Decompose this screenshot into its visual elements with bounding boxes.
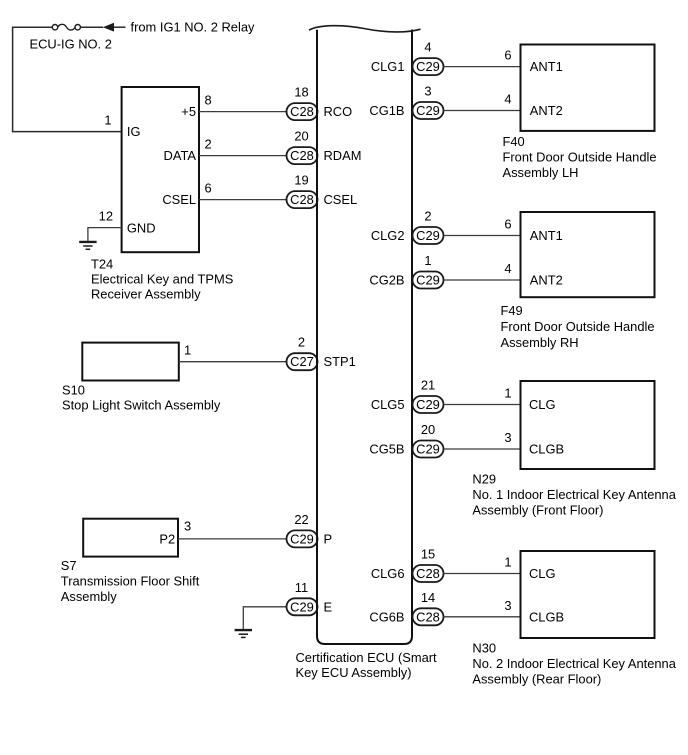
svg-text:ANT1: ANT1 [530, 228, 563, 243]
svg-text:C29: C29 [416, 442, 440, 457]
svg-text:8: 8 [205, 93, 212, 108]
svg-text:20: 20 [294, 129, 308, 144]
box T24 Electrical Key and TPMS Receiver Assembly [122, 87, 199, 252]
wire CG5B to N29 CLGB [444, 448, 520, 450]
arrow from IG1 NO. 2 Relay [103, 20, 255, 35]
svg-text:12: 12 [99, 209, 113, 224]
svg-text:Key ECU Assembly): Key ECU Assembly) [296, 665, 412, 680]
svg-text:+5: +5 [181, 104, 196, 119]
wire CG2B to F49 ANT2 [444, 279, 520, 281]
svg-text:GND: GND [127, 220, 156, 235]
svg-text:Front Door Outside Handle: Front Door Outside Handle [503, 149, 657, 164]
svg-text:CG5B: CG5B [369, 442, 404, 457]
svg-text:Front Door Outside Handle: Front Door Outside Handle [501, 319, 655, 334]
svg-text:CLGB: CLGB [529, 442, 564, 457]
connector C28 pin 15 (CLG6) [413, 547, 444, 583]
svg-text:1: 1 [184, 343, 191, 358]
svg-text:4: 4 [504, 261, 511, 276]
svg-text:6: 6 [504, 217, 511, 232]
wire CLG5 to N29 CLG [444, 404, 520, 406]
svg-text:T24: T24 [91, 256, 113, 271]
ground (T24 GND) [79, 242, 96, 249]
svg-text:22: 22 [294, 512, 308, 527]
svg-text:Assembly (Rear Floor): Assembly (Rear Floor) [472, 671, 601, 686]
connector C29 pin 11 (E) [287, 580, 318, 616]
box F49 Front Door Outside Handle Assembly RH [521, 212, 655, 297]
wire CG6B to N30 CLGB [444, 616, 520, 618]
svg-text:C28: C28 [290, 104, 314, 119]
label T24 [91, 256, 233, 301]
connector C29 pin 2 (CLG2) [413, 209, 444, 245]
svg-text:C28: C28 [290, 192, 314, 207]
box N29 No. 1 Indoor Electrical Key Antenna Assembly [521, 381, 655, 469]
svg-text:ANT1: ANT1 [530, 59, 563, 74]
svg-text:1: 1 [504, 386, 511, 401]
svg-text:15: 15 [421, 547, 435, 562]
connector C29 pin 21 (CLG5) [413, 378, 444, 414]
svg-text:No. 1 Indoor Electrical Key An: No. 1 Indoor Electrical Key Antenna [472, 487, 676, 502]
svg-text:C28: C28 [416, 566, 440, 581]
wire CLG1 to F40 ANT1 [444, 66, 520, 68]
svg-text:C28: C28 [290, 148, 314, 163]
connector C28 pin 19 (CSEL) [287, 173, 318, 209]
box S7 Transmission Floor Shift Assembly [83, 519, 178, 557]
connector C29 pin 20 (CG5B) [413, 422, 444, 458]
svg-text:20: 20 [421, 422, 435, 437]
svg-text:F40: F40 [503, 134, 525, 149]
svg-text:2: 2 [205, 137, 212, 152]
svg-text:CG2B: CG2B [369, 273, 404, 288]
svg-text:CSEL: CSEL [324, 192, 358, 207]
connector C28 pin 18 (RCO) [287, 85, 318, 121]
svg-text:IG: IG [127, 124, 141, 139]
svg-text:19: 19 [294, 173, 308, 188]
svg-text:4: 4 [424, 40, 431, 55]
svg-text:4: 4 [504, 91, 511, 106]
svg-text:2: 2 [424, 209, 431, 224]
svg-text:Assembly RH: Assembly RH [501, 335, 579, 350]
svg-text:N29: N29 [472, 471, 496, 486]
svg-text:C28: C28 [416, 609, 440, 624]
wire CLG6 to N30 CLG [444, 573, 520, 575]
svg-text:C29: C29 [416, 228, 440, 243]
svg-text:Transmission Floor Shift: Transmission Floor Shift [61, 574, 200, 589]
svg-text:CLG5: CLG5 [371, 397, 405, 412]
svg-text:ANT2: ANT2 [530, 103, 563, 118]
wire S7 P2 to C29 [178, 538, 287, 540]
wire T24 GND to ground [88, 228, 122, 241]
svg-text:RDAM: RDAM [324, 148, 362, 163]
connector C29 pin 3 (CG1B) [413, 84, 444, 120]
svg-text:CG6B: CG6B [369, 609, 404, 624]
connector C29 pin 22 (P) [287, 512, 318, 548]
wire S10 to C27 [179, 361, 287, 363]
svg-text:21: 21 [421, 378, 435, 393]
svg-text:S10: S10 [62, 382, 85, 397]
ground (E) [235, 630, 252, 637]
svg-text:1: 1 [104, 113, 111, 128]
svg-text:S7: S7 [61, 558, 77, 573]
ECU outline (Certification ECU body) [309, 26, 421, 644]
svg-text:Assembly (Front Floor): Assembly (Front Floor) [472, 502, 603, 517]
svg-text:ECU-IG NO. 2: ECU-IG NO. 2 [30, 37, 112, 52]
svg-text:N30: N30 [472, 640, 496, 655]
label F40 [503, 134, 657, 180]
svg-text:CLG1: CLG1 [371, 59, 405, 74]
svg-text:CSEL: CSEL [162, 192, 196, 207]
svg-text:3: 3 [504, 430, 511, 445]
box N30 No. 2 Indoor Electrical Key Antenna Assembly [521, 551, 655, 638]
wire ECU-IG feed (top horizontal + left vertical to IG pin) [13, 27, 126, 131]
label S7 [61, 558, 200, 604]
wire CSEL to C28 [199, 199, 287, 201]
svg-text:C29: C29 [290, 599, 314, 614]
svg-text:Electrical Key and TPMS: Electrical Key and TPMS [91, 272, 233, 287]
svg-text:P: P [324, 531, 333, 546]
svg-text:C29: C29 [416, 397, 440, 412]
svg-text:Assembly: Assembly [61, 589, 117, 604]
svg-text:ANT2: ANT2 [530, 272, 563, 287]
wire +5 to C28 [199, 111, 287, 113]
label N29 [472, 471, 676, 517]
svg-text:CLG2: CLG2 [371, 228, 405, 243]
svg-text:C29: C29 [290, 531, 314, 546]
svg-text:1: 1 [504, 555, 511, 570]
svg-text:DATA: DATA [164, 148, 197, 163]
wire CG1B to F40 ANT2 [444, 110, 520, 112]
svg-text:STP1: STP1 [324, 354, 356, 369]
svg-text:14: 14 [421, 590, 435, 605]
connector C28 pin 14 (CG6B) [413, 590, 444, 626]
label N30 [472, 640, 676, 686]
label Certification ECU [296, 650, 438, 680]
label S10 [62, 382, 221, 412]
svg-text:6: 6 [205, 181, 212, 196]
svg-text:E: E [324, 599, 333, 614]
svg-text:CLG6: CLG6 [371, 566, 405, 581]
connector C27 pin 2 (STP1) [287, 335, 318, 371]
svg-text:Receiver Assembly: Receiver Assembly [91, 287, 201, 302]
fuse ECU-IG NO. 2 [30, 24, 112, 51]
svg-text:18: 18 [294, 85, 308, 100]
box F40 Front Door Outside Handle Assembly LH [521, 45, 655, 131]
svg-text:3: 3 [184, 519, 191, 534]
svg-text:C29: C29 [416, 103, 440, 118]
svg-text:2: 2 [298, 335, 305, 350]
wire E to ground [243, 607, 286, 629]
svg-text:CLG: CLG [529, 397, 556, 412]
svg-text:C29: C29 [416, 59, 440, 74]
svg-text:from IG1 NO. 2 Relay: from IG1 NO. 2 Relay [131, 20, 255, 35]
svg-text:11: 11 [295, 580, 308, 595]
svg-text:RCO: RCO [324, 104, 353, 119]
svg-text:P2: P2 [159, 532, 175, 547]
svg-text:CLG: CLG [529, 566, 556, 581]
svg-text:CG1B: CG1B [369, 103, 404, 118]
svg-text:F49: F49 [501, 303, 523, 318]
svg-text:Assembly LH: Assembly LH [503, 165, 579, 180]
svg-text:CLGB: CLGB [529, 609, 564, 624]
svg-text:3: 3 [504, 598, 511, 613]
svg-text:C29: C29 [416, 273, 440, 288]
svg-text:3: 3 [424, 84, 431, 99]
svg-text:C27: C27 [290, 354, 314, 369]
svg-text:1: 1 [424, 253, 431, 268]
wire CLG2 to F49 ANT1 [444, 235, 520, 237]
svg-text:No. 2 Indoor Electrical Key An: No. 2 Indoor Electrical Key Antenna [472, 656, 676, 671]
wire DATA to C28 [199, 155, 287, 157]
svg-text:Stop Light Switch Assembly: Stop Light Switch Assembly [62, 398, 221, 413]
svg-text:Certification ECU (Smart: Certification ECU (Smart [296, 650, 438, 665]
connector C29 pin 4 (CLG1) [413, 40, 444, 76]
connector C28 pin 20 (RDAM) [287, 129, 318, 165]
connector C29 pin 1 (CG2B) [413, 253, 444, 289]
label F49 [501, 303, 655, 350]
box S10 Stop Light Switch Assembly [82, 343, 179, 381]
svg-text:6: 6 [504, 48, 511, 63]
